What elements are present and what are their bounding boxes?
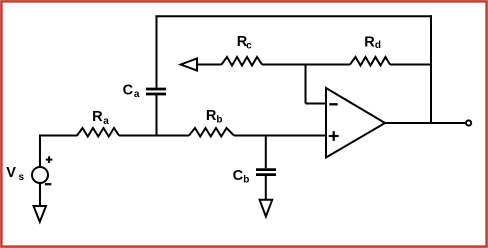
label Rc [237,34,252,52]
svg-text:R: R [364,34,375,50]
svg-text:b: b [216,115,222,126]
voltage source Vs [32,136,48,207]
svg-text:C: C [123,82,134,98]
resistor Rc [222,57,263,66]
ground (below Cb) [260,200,273,217]
label Ra [92,109,109,127]
resistor Rd [350,57,390,66]
wire: Cb node down to Cb top plate [265,136,267,169]
label Ca [123,82,140,100]
arrow (current direction, pointing left) [181,58,197,70]
svg-text:a: a [103,116,109,127]
label Rd [364,34,381,51]
capacitor Cb [256,170,276,175]
label Vs [6,165,24,183]
label Vs minus sign [45,183,52,185]
svg-text:b: b [243,175,249,186]
wire: Ca bottom plate down to main node [156,95,158,137]
svg-text:C: C [233,168,244,184]
resistor Rb [189,128,234,137]
capacitor Ca [146,89,166,94]
wire: inverting input vertical drop [305,64,307,104]
wire: op-amp output [385,122,466,124]
svg-text:d: d [375,40,381,51]
wire: Ra to Rb through node A [119,135,189,137]
wire: arrow back to Rc [197,64,222,66]
wire: Vs top to Ra [39,135,78,137]
wire: Rd to right vertical [390,64,432,66]
svg-text:a: a [134,89,140,100]
op-amp U1 [326,88,385,158]
wire: Rb to op-amp + input through Cb node [234,135,326,137]
svg-text:c: c [246,40,252,51]
label Rb [206,108,223,126]
node: output terminal [466,120,471,125]
label Cb [233,168,250,186]
label op-amp plus input [329,131,339,141]
label Vs plus sign [46,156,53,163]
wire: feedback left vertical (Ca node up to top rail) [156,16,158,88]
svg-text:V: V [6,165,16,181]
svg-text:s: s [19,172,25,183]
wire: Cb bottom plate down to ground [265,176,267,200]
label op-amp minus input [329,103,337,105]
resistor Ra [77,128,119,137]
wire: right vertical (top rail down to output node) [430,15,432,123]
svg-text:R: R [206,108,217,124]
ground (below Vs) [34,206,47,222]
wire: inverting input horizontal into op-amp [306,103,327,105]
wire: top feedback rail [155,15,432,17]
wire: Rc to Rd through inverting branch node [262,64,350,66]
svg-text:R: R [92,109,103,125]
